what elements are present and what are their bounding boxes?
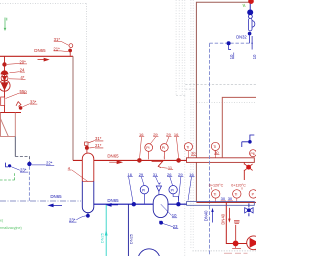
svg-text:DN25: DN25 <box>99 232 104 243</box>
drop to return <box>28 166 30 201</box>
green speck <box>243 4 246 7</box>
svg-text:16: 16 <box>189 172 194 177</box>
svg-text:31*: 31* <box>95 136 102 141</box>
boundary dotted verticals right <box>175 0 177 96</box>
svg-text:29: 29 <box>153 132 158 137</box>
expansion line dashed <box>210 42 254 44</box>
pump 4* <box>1 75 8 82</box>
green dashed boundary <box>0 172 15 180</box>
supply main line DN65 top-left <box>0 55 73 57</box>
node 22* <box>27 162 31 166</box>
sensor 31 triangle <box>156 183 161 192</box>
svg-text:Pi: Pi <box>146 146 149 150</box>
gauge P1 <box>145 144 153 152</box>
tank drain node 23* <box>87 213 89 214</box>
svg-text:DN40: DN40 <box>203 210 208 221</box>
air vent V2 <box>69 44 73 48</box>
svg-text:29: 29 <box>178 172 183 177</box>
expansion vessel <box>153 195 168 218</box>
return axis dash-dot <box>0 200 81 202</box>
node safety top <box>248 0 254 4</box>
left branch pipe <box>4 56 6 97</box>
air vent on tank <box>85 146 89 150</box>
gauge P3 blue <box>140 186 148 194</box>
gauge P4 blue <box>169 186 177 194</box>
wire safety stem <box>249 4 251 10</box>
svg-text:DN25: DN25 <box>129 233 134 244</box>
gauge P6 <box>250 150 257 157</box>
gauge T2 <box>211 142 219 150</box>
bottom marks <box>224 252 248 254</box>
gauge P2 <box>160 144 168 152</box>
pump 55p <box>0 80 10 91</box>
node safety valve inlet <box>247 9 253 15</box>
svg-text:26: 26 <box>167 172 172 177</box>
node J4 <box>176 202 180 206</box>
svg-text:Ti: Ti <box>186 145 189 149</box>
svg-text:4*: 4* <box>20 75 24 80</box>
gauge T1 <box>184 143 192 151</box>
svg-text:30: 30 <box>191 151 196 156</box>
svg-text:16: 16 <box>139 132 144 137</box>
svg-text:DN65: DN65 <box>34 48 46 53</box>
node on expansion line <box>227 41 231 45</box>
heat exchanger <box>0 113 15 137</box>
green arrow (north) <box>5 18 7 29</box>
svg-text:29: 29 <box>166 132 171 137</box>
valve 24 (dome) <box>1 71 8 75</box>
svg-text:16: 16 <box>174 132 179 137</box>
svg-text:0+120°C: 0+120°C <box>209 184 224 188</box>
svg-text:DN32: DN32 <box>236 35 247 40</box>
air separator tank <box>82 153 94 181</box>
node J2 <box>176 158 181 163</box>
red riser to pump <box>226 202 247 243</box>
valve below manifold <box>243 162 245 180</box>
vessel drain node 23 <box>159 221 163 225</box>
filter box <box>1 97 5 106</box>
svg-text:30: 30 <box>228 196 233 201</box>
label 10 riser B <box>251 36 253 50</box>
svg-text:21*: 21* <box>95 143 102 148</box>
return main line center <box>94 203 187 205</box>
supply manifold <box>187 158 255 163</box>
return manifold <box>187 202 255 206</box>
svg-text:Pi: Pi <box>162 146 165 150</box>
riser DN25 blue <box>127 204 129 256</box>
svg-text:Ti: Ti <box>213 145 216 149</box>
flow arrow left <box>49 204 62 207</box>
gauge T4 <box>233 190 241 198</box>
svg-text:DN65: DN65 <box>107 198 119 203</box>
svg-text:55p: 55p <box>20 89 28 94</box>
svg-text:10: 10 <box>252 54 256 59</box>
node 23* left <box>6 163 8 167</box>
wire to DN32 line <box>249 35 251 43</box>
return main line right <box>196 201 256 203</box>
svg-text:P6: P6 <box>250 152 254 156</box>
svg-text:10: 10 <box>229 54 234 59</box>
svg-text:29: 29 <box>139 172 144 177</box>
svg-text:0+120°C: 0+120°C <box>231 184 246 188</box>
svg-text:23*: 23* <box>20 167 27 172</box>
svg-text:Ti: Ti <box>235 193 238 197</box>
boundary dotted line top-left <box>0 4 87 152</box>
svg-text:23: 23 <box>173 224 178 229</box>
frame border dark red <box>196 2 250 201</box>
strainer 11 <box>152 161 163 167</box>
svg-text:23*: 23* <box>69 217 76 222</box>
pump bottom center <box>138 249 160 256</box>
flow arrow right <box>38 58 49 61</box>
valve node 20* <box>2 62 6 66</box>
svg-text:16: 16 <box>128 172 133 177</box>
riser to separator <box>72 56 74 160</box>
svg-text:30: 30 <box>214 150 219 155</box>
riser top right <box>222 97 256 157</box>
blue valve riser <box>248 203 250 216</box>
node hook blue <box>248 140 252 144</box>
connector to node <box>14 136 16 156</box>
node J1 <box>137 158 142 163</box>
node J3 <box>132 202 136 206</box>
svg-text:rmalizacyjne): rmalizacyjne) <box>0 226 22 230</box>
gauge P7 <box>249 190 257 198</box>
svg-text:10: 10 <box>172 213 177 218</box>
flow arrow right <box>109 161 122 164</box>
safety valve body <box>249 15 253 19</box>
node DN32 line top <box>248 32 252 36</box>
boundary dashed horizontals right <box>185 84 256 86</box>
supply main line center <box>73 159 187 161</box>
svg-text:DN65: DN65 <box>107 154 119 159</box>
svg-text:DN65: DN65 <box>50 194 62 199</box>
svg-text:30: 30 <box>221 196 226 201</box>
svg-text:20*: 20* <box>19 59 26 64</box>
svg-text:31: 31 <box>153 172 158 177</box>
lower pipe <box>0 112 21 114</box>
svg-text:24: 24 <box>20 68 25 73</box>
svg-text:33*: 33* <box>30 100 37 105</box>
svg-text:DN40: DN40 <box>221 213 226 224</box>
svg-text:Pi: Pi <box>142 188 145 192</box>
svg-text:Pi: Pi <box>171 188 174 192</box>
riser DN25 cyan <box>105 205 107 256</box>
drain fitting <box>234 220 240 223</box>
svg-text:22*: 22* <box>46 161 53 166</box>
gauge T3 <box>212 190 220 198</box>
svg-text:Ti: Ti <box>213 193 216 197</box>
check valve 33* <box>16 102 21 107</box>
pump bottom right <box>247 236 261 250</box>
node pump inlet <box>233 241 239 247</box>
